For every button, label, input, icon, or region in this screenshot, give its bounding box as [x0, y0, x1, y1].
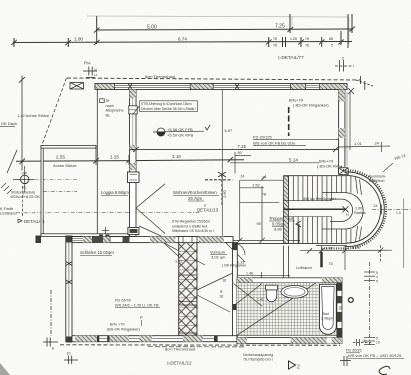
svg-text:5.07: 5.07	[225, 128, 234, 133]
svg-text:8cm Thermohaut: 8cm Thermohaut	[145, 74, 176, 79]
svg-text:5: 5	[331, 43, 333, 47]
svg-text:6.74: 6.74	[178, 37, 187, 42]
svg-text:Radius: Radius	[354, 211, 366, 215]
svg-text:16: 16	[222, 278, 226, 282]
svg-text:+5.58 OK FFB: +5.58 OK FFB	[167, 127, 193, 132]
svg-text:umlaufend n.Statik! Auf: umlaufend n.Statik! Auf	[172, 224, 207, 228]
leader from shaft	[197, 271, 237, 290]
note box STB-Ueberzug	[140, 101, 198, 112]
svg-text:1.01: 1.01	[354, 141, 363, 146]
svg-text:10: 10	[376, 340, 380, 344]
svg-text:78./78cm(BS)-DG !: 78./78cm(BS)-DG !	[243, 358, 273, 362]
window glazing line	[306, 85, 320, 87]
svg-text:5: 5	[342, 57, 344, 61]
svg-text:Brfu +79: Brfu +79	[110, 322, 124, 326]
bottom left corner mark	[0, 363, 10, 375]
landing line	[284, 208, 346, 210]
svg-text:1.42 Achse Stütze: 1.42 Achse Stütze	[17, 113, 50, 118]
corner cross right	[356, 76, 373, 90]
svg-text:Schlafen 15.02qm: Schlafen 15.02qm	[80, 250, 114, 255]
svg-text:5: 5	[376, 279, 378, 283]
svg-text:29.7qm: 29.7qm	[188, 196, 202, 201]
svg-text:76: 76	[305, 37, 309, 41]
dashed line left of stair landing	[205, 179, 233, 181]
svg-text:FD 24/78: FD 24/78	[115, 299, 131, 303]
bottom P mark	[64, 356, 78, 365]
svg-text:1.52: 1.52	[252, 183, 261, 188]
horizontal dim line 2.55 / 1.25 / 3.10	[16, 146, 244, 165]
svg-text:50: 50	[238, 151, 242, 155]
svg-text:1.00: 1.00	[355, 206, 362, 210]
slash mark	[7, 150, 17, 173]
svg-text:3.02 qm: 3.02 qm	[211, 255, 226, 260]
svg-text:Absprache: Absprache	[106, 109, 124, 113]
svg-text:Wellblech: Wellblech	[369, 179, 385, 183]
svg-text:24: 24	[375, 141, 380, 146]
svg-text:nach: nach	[106, 104, 114, 108]
door swing vorraum	[226, 243, 245, 262]
svg-text:90: 90	[339, 306, 343, 310]
bath top wall	[237, 278, 342, 283]
wall element box y106	[129, 106, 137, 114]
schlafen top wall	[72, 237, 233, 243]
stair top boundary	[284, 175, 348, 177]
column circle Stuetze	[13, 166, 34, 192]
svg-text:2: 2	[297, 365, 300, 371]
svg-text:Luftraum: Luftraum	[296, 265, 312, 270]
thick dashed section mark	[288, 107, 290, 136]
top exterior wall with windows	[95, 84, 347, 90]
transition treads in cap	[356, 177, 362, 242]
loggia bottom edge	[41, 234, 129, 237]
Pos marker P04	[83, 67, 97, 78]
svg-text:8: 8	[52, 347, 54, 351]
svg-text:1.01: 1.01	[175, 260, 182, 264]
svg-text:WS von OK FB bis UDe: WS von OK FB bis UDe	[253, 140, 296, 145]
svg-text:24: 24	[241, 175, 245, 179]
svg-text:BL: BL	[106, 113, 111, 117]
triangle 2 mark	[289, 361, 296, 369]
svg-text:Wohnen/Kochen/Essen: Wohnen/Kochen/Essen	[173, 190, 217, 195]
mullion mark	[235, 84, 239, 90]
leader cross	[218, 172, 226, 177]
svg-text:Stütze (Beton): Stütze (Beton)	[11, 191, 36, 195]
svg-text:( BS-OK Ringanker): ( BS-OK Ringanker)	[293, 103, 329, 108]
svg-text:1.0: 1.0	[396, 211, 401, 215]
svg-text:75: 75	[329, 262, 333, 266]
svg-text:2.60: 2.60	[222, 189, 227, 198]
bottom exterior wall	[72, 336, 237, 342]
hatched pier	[291, 84, 306, 90]
level marker symbol	[153, 125, 210, 138]
stair bottom boundary	[237, 242, 347, 244]
wall between vorraum and bath/stair	[233, 243, 238, 342]
left exterior wall (window band)	[66, 236, 72, 342]
right tick cluster	[364, 262, 375, 345]
svg-text:90: 90	[257, 221, 262, 226]
wall end block with X at stair corner	[339, 168, 349, 175]
svg-text:3.10: 3.10	[172, 154, 181, 159]
right small dim cross 24/5	[335, 60, 354, 72]
svg-text:DETAIL/13: DETAIL/13	[197, 208, 219, 213]
upper flight treads	[289, 176, 351, 201]
left vertical dimension line	[21, 76, 23, 171]
bathtub	[320, 284, 337, 334]
bottom wall right section	[237, 338, 342, 344]
svg-text:Decken über Decke 06-06 n.Sta: Decken über Decke 06-06 n.Statik !	[141, 107, 196, 111]
svg-text:2.48qm: 2.48qm	[321, 317, 333, 321]
vertical dim 5.07/2.60	[221, 90, 223, 240]
stair direction arrow	[296, 221, 301, 227]
right edge vertical line	[403, 199, 405, 268]
window glazing line	[115, 85, 190, 87]
right exterior wall	[339, 90, 345, 173]
shaft top hatched wall piece	[179, 237, 197, 243]
luftraum vertical wall lines	[283, 246, 285, 278]
window glazing line	[213, 85, 290, 87]
svg-text:88: 88	[329, 37, 333, 41]
svg-text:76: 76	[273, 43, 277, 47]
svg-text:7.25: 7.25	[238, 144, 247, 149]
thermohaut dashed bottom	[60, 344, 340, 347]
svg-text:OK Dach: OK Dach	[1, 121, 17, 126]
svg-text:8.88: 8.88	[274, 226, 283, 231]
svg-text:WS von OK FB – UKD 30/125: WS von OK FB – UKD 30/125	[348, 353, 402, 358]
svg-text:10: 10	[67, 351, 71, 355]
stair left wall	[284, 176, 289, 244]
vent symbol	[348, 297, 353, 302]
bath right wall	[337, 283, 342, 338]
roof edge dashed diagonal	[42, 78, 67, 146]
dim row 1.88 / 5.25	[300, 245, 392, 270]
svg-text:FD 20/125: FD 20/125	[253, 134, 272, 139]
svg-text:P: P	[140, 315, 143, 320]
svg-text:1.00: 1.00	[74, 37, 83, 42]
svg-text:1.26: 1.26	[290, 37, 297, 41]
svg-text:Aluminium-: Aluminium-	[368, 174, 387, 178]
dash-dot axis to right of column	[34, 179, 77, 181]
svg-text:8cm Thermohaut: 8cm Thermohaut	[165, 347, 196, 352]
svg-text:▷DETAIL/12: ▷DETAIL/12	[167, 361, 192, 366]
svg-text:Achse Stütze: Achse Stütze	[53, 163, 77, 168]
8cm Thermohaut dashed line	[67, 78, 361, 80]
wall end block bottom	[128, 228, 139, 235]
Df nach Absprache note	[100, 99, 105, 103]
small labels 76 126 76 88	[273, 37, 333, 47]
dimension line 5.00 / 7.25	[96, 14, 353, 44]
svg-text:( BS-OK RA! ): ( BS-OK RA! )	[317, 163, 343, 168]
open edge line below top wall left end	[96, 90, 98, 237]
svg-text:1.25: 1.25	[110, 154, 119, 159]
svg-text:K Firstb: K Firstb	[0, 207, 13, 211]
dimension line 1.00 / 6.74 row	[13, 14, 352, 48]
svg-text:76: 76	[305, 43, 309, 47]
corner cross top right	[348, 88, 354, 94]
svg-text:16: 16	[219, 294, 223, 298]
door frame box on wall	[128, 172, 140, 183]
inner eye stadium	[330, 199, 353, 221]
svg-text:1.41: 1.41	[257, 297, 264, 301]
svg-text:( OK Ringanker: ( OK Ringanker	[222, 264, 247, 268]
svg-text:Loggia 6.58qm: Loggia 6.58qm	[101, 190, 129, 195]
shaft cross-hatched	[179, 243, 197, 336]
svg-text:5.25: 5.25	[352, 245, 361, 250]
landing rect 1.52/78	[153, 180, 300, 243]
svg-text:1.88: 1.88	[325, 245, 334, 250]
hatched pier corner	[320, 84, 347, 90]
WC	[266, 285, 278, 302]
left bottom dim marks	[43, 290, 58, 347]
svg-text:24: 24	[374, 204, 378, 208]
small blocks on loggia bottom	[99, 235, 103, 240]
svg-text:▷DETAIL/77: ▷DETAIL/77	[278, 55, 304, 60]
svg-text:FL: FL	[23, 186, 27, 190]
lower flight treads	[289, 217, 351, 244]
svg-text:SW: SW	[22, 171, 28, 175]
corrugated texture	[320, 170, 386, 248]
cross mark	[102, 227, 109, 234]
svg-text:P04: P04	[84, 61, 91, 66]
svg-text:5.14: 5.14	[289, 157, 298, 162]
svg-text:FD 30/25: FD 30/25	[346, 349, 362, 353]
hatched pier	[95, 84, 115, 90]
corner post with X at top-left	[70, 83, 84, 90]
mullion mark	[128, 84, 132, 90]
loggia corner block	[36, 236, 42, 244]
bath tiles	[237, 283, 337, 336]
svg-text:Deckenaussparung: Deckenaussparung	[243, 353, 273, 357]
svg-text:7.25: 7.25	[275, 24, 285, 30]
loggia top edge	[41, 146, 96, 149]
wall stub black	[320, 252, 322, 267]
svg-text:5.00: 5.00	[147, 25, 157, 31]
interior wall left of Wohnen	[130, 90, 137, 237]
faint fold line	[87, 16, 349, 44]
svg-text:STB-Überzug b=Durchlast 18cm: STB-Überzug b=Durchlast 18cm	[141, 102, 192, 106]
door swing schlafen	[164, 243, 206, 272]
svg-text:78: 78	[262, 191, 267, 196]
vertical dash to DETAIL/11	[22, 186, 24, 216]
svg-text:Bad: Bad	[323, 312, 329, 316]
svg-text:H: H	[346, 213, 349, 217]
svg-text:76: 76	[273, 37, 277, 41]
svg-text:(BS-OK Ringanker): (BS-OK Ringanker)	[107, 327, 140, 331]
svg-text:1.46: 1.46	[246, 271, 253, 275]
svg-text:14: 14	[94, 73, 98, 77]
svg-text:10: 10	[94, 68, 98, 72]
hatched pier	[190, 84, 213, 90]
svg-text:WS 24/6 – 1.26 U. OK FB: WS 24/6 – 1.26 U. OK FB	[115, 303, 159, 307]
svg-text:Ø25cm/+8.25 OK: Ø25cm/+8.25 OK	[11, 195, 41, 199]
svg-text:Lichtband: Lichtband	[0, 212, 16, 216]
right bottom tick cluster	[364, 338, 375, 345]
svg-text:2.55: 2.55	[56, 155, 65, 160]
bath diagonals	[234, 283, 317, 336]
loggia parapet left	[41, 146, 43, 236]
interior width dim 7.25	[130, 148, 339, 150]
X brace cross at wall corner	[136, 184, 165, 236]
ground hatch under column	[1, 183, 12, 194]
sink	[281, 286, 308, 299]
center axis dashed	[372, 208, 411, 210]
note STB-Riegel	[172, 220, 214, 233]
dim row above bath	[237, 272, 290, 278]
svg-text:STB-Riegelober 25/25cm: STB-Riegelober 25/25cm	[172, 220, 210, 224]
svg-text:+5.50 OK RFB: +5.50 OK RFB	[167, 133, 193, 138]
squiggle	[379, 366, 390, 374]
stair cap outer wall	[347, 176, 381, 243]
svg-text:Mittelwand OK RA=8.50 m !: Mittelwand OK RA=8.50 m !	[172, 229, 214, 233]
dim 1.01 / 24 right	[339, 92, 390, 152]
